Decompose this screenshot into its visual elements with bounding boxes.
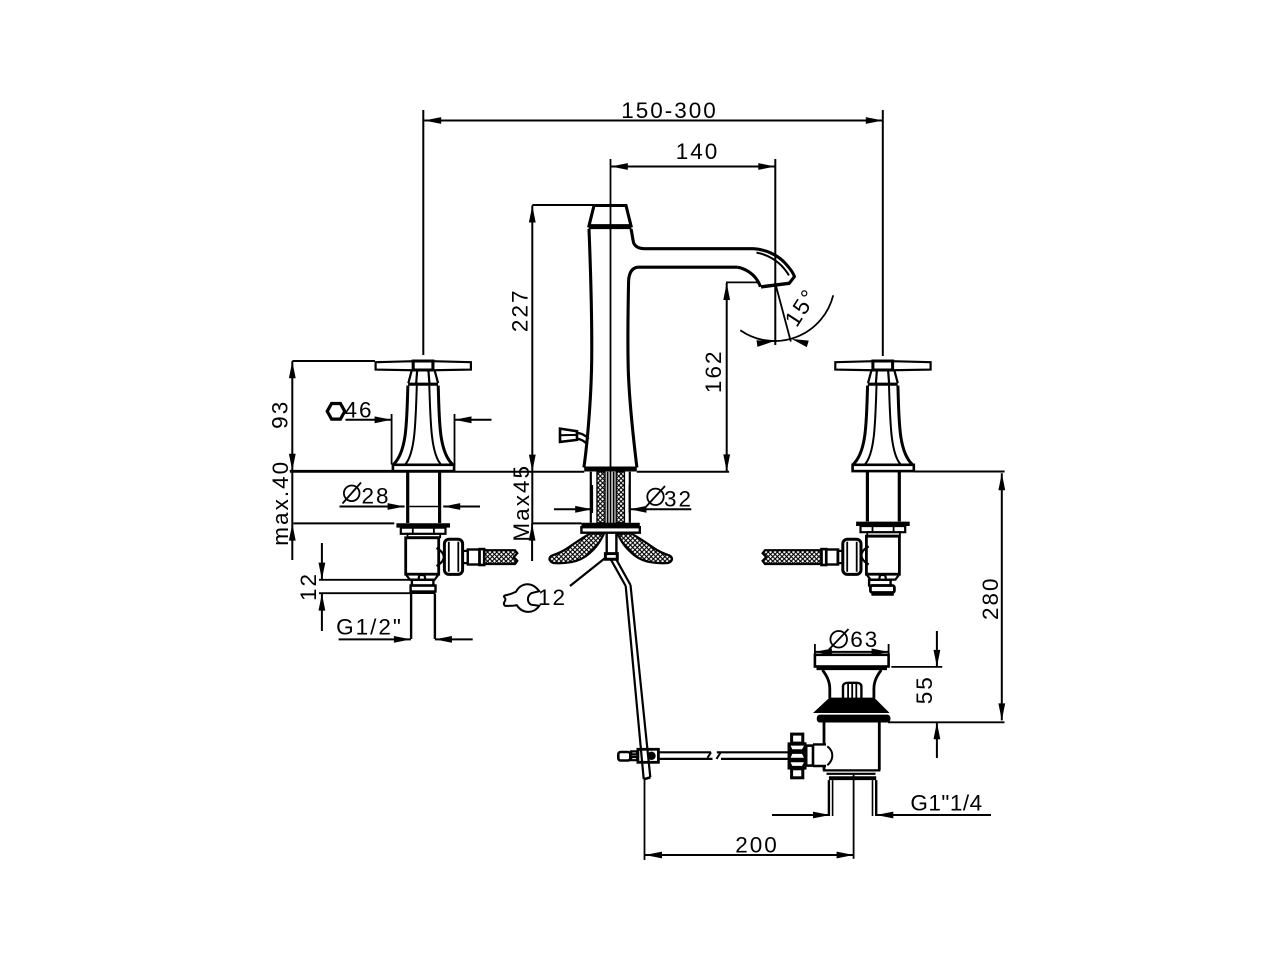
dim o32 line [554, 508, 691, 510]
deck top line left [290, 471, 584, 473]
spout outer curve and beak [754, 249, 795, 284]
left handle neck tube walls [408, 471, 440, 523]
dim 227 top reference [532, 204, 593, 206]
spout arm bottom left curve into body [629, 267, 638, 280]
left handle hex nut facet lines [449, 542, 459, 572]
dim 280 line [1001, 473, 1003, 720]
dim 140 right extension [774, 159, 776, 345]
pull rod knob [560, 429, 577, 442]
left handle hub neck bottom line [408, 383, 438, 386]
wrench symbol [504, 584, 539, 612]
svg-text:280: 280 [978, 576, 1003, 620]
drain cap bottom thick line [817, 666, 888, 670]
drain tailpipe walls [829, 780, 876, 816]
right handle cross bar left arm [835, 361, 872, 370]
stud cap [605, 554, 617, 560]
left handle tail ring bottom thick [411, 591, 436, 594]
right handle hose ferrule [822, 549, 827, 565]
drain body port arc [827, 746, 832, 765]
lever rod shaft right piece [717, 752, 789, 759]
right handle tail ring bottom thick [871, 592, 893, 595]
drain centerline / 200 right extension [853, 774, 855, 859]
left mounting wing (hatched) [549, 533, 603, 563]
dim 12 references [319, 580, 411, 593]
dim 200 line [645, 854, 854, 856]
deck bottom line left handle [293, 522, 394, 524]
dim G1/2 line [339, 638, 473, 640]
15 degree slant line [776, 286, 791, 342]
lever clamp screw [647, 752, 655, 760]
right handle trumpet body [853, 386, 912, 465]
right handle hub neck [868, 370, 898, 383]
svg-text:G1"1/4: G1"1/4 [910, 791, 982, 816]
svg-text:63: 63 [850, 627, 879, 652]
right handle valve port arc [861, 546, 868, 564]
dim 150-300 line [424, 120, 883, 122]
diameter symbol o28 [343, 483, 362, 504]
faucet centerline / 140 left extension [610, 159, 612, 523]
pull rod diagonal upper [611, 559, 631, 586]
drain port stub lines [813, 744, 826, 766]
left handle tail ring upper [412, 580, 434, 586]
faucet body left side [584, 229, 592, 468]
svg-text:Max45: Max45 [509, 464, 534, 542]
dim 46 arrows [375, 416, 392, 423]
deck top line at right handle / 280 top ref [914, 471, 1005, 473]
hex symbol for 46 [327, 404, 345, 420]
stud below flange [607, 533, 617, 554]
pull rod inside shank [608, 472, 614, 523]
svg-text:93: 93 [267, 400, 292, 429]
svg-text:28: 28 [361, 483, 390, 508]
mounting flange body [581, 527, 639, 533]
dim 46 line [346, 419, 492, 421]
right handle flange ring notches [873, 526, 894, 531]
drain tailpipe top thick band [829, 776, 876, 780]
svg-text:140: 140 [676, 139, 720, 164]
right handle tail ring upper [869, 580, 891, 586]
left handle hose tube [468, 550, 480, 565]
Max45 lower reference [532, 522, 581, 524]
right handle braided hose (hatched) [763, 550, 822, 564]
faucet base thick line [584, 467, 637, 472]
drain castellated nut bottom collar [792, 769, 803, 778]
drain castellated nut top collar [792, 734, 803, 743]
dim o63 extension lines [815, 644, 889, 657]
drain castellated nut slots [791, 746, 804, 766]
dim o28 line [340, 506, 481, 508]
svg-text:32: 32 [664, 487, 693, 512]
dim 12 line left [321, 543, 323, 631]
svg-text:12: 12 [296, 572, 321, 601]
svg-text:G1/2": G1/2" [336, 614, 403, 639]
right handle hub neck bottom line [868, 383, 898, 386]
right handle tail ring lower [870, 586, 894, 593]
spout lower lip inner curve [751, 274, 759, 285]
dim 46 extension lines [392, 414, 455, 465]
dim o28 crossing neck [410, 506, 439, 508]
mounting flange top thick band [581, 523, 639, 528]
dim o32 arrows [575, 506, 592, 513]
lever rod coupling knobs [631, 751, 637, 760]
dim G1/2 arrows [394, 636, 411, 643]
svg-text:12: 12 [538, 585, 567, 610]
right handle valve body [866, 536, 899, 574]
left handle flange thick band [396, 523, 450, 527]
wrench 12 leader line [570, 559, 605, 587]
threaded shank outer walls [591, 472, 630, 523]
drain seal ring (black) [818, 715, 890, 721]
diameter symbol o63 [829, 629, 849, 650]
left handle flare base plate [393, 465, 454, 471]
dim 140 line [611, 166, 776, 168]
left handle valve body [406, 538, 439, 574]
left handle hub neck [408, 370, 438, 383]
dim 140 arrows [611, 163, 628, 170]
left handle tail ring lower [411, 586, 436, 592]
drain top cap [815, 655, 889, 667]
dim 93 bottom reference [290, 470, 392, 472]
spout arm bottom edge [638, 266, 738, 269]
left handle flange ring [401, 528, 446, 534]
right handle valve bottom taper [866, 574, 899, 579]
dim 93 arrows [289, 361, 296, 378]
lever rod shaft left piece [658, 752, 712, 759]
left handle hex nut [444, 539, 462, 574]
dim 162 top reference [726, 281, 760, 283]
dim G1"1/4 line [772, 814, 991, 816]
left handle hose ferrule [480, 549, 485, 565]
diameter symbol o32 [646, 486, 665, 507]
left handle trumpet facet lines [405, 386, 441, 465]
horizontal lever rod left tip [618, 752, 630, 761]
pull rod bottom cap [644, 777, 651, 779]
Max45 bottom arrow [529, 524, 536, 541]
svg-text:150-300: 150-300 [621, 98, 718, 123]
stud cap slot [609, 555, 615, 557]
drain neck concave sides [823, 670, 882, 698]
spout beak inner curve [757, 253, 789, 276]
lever rod break symbol [708, 752, 721, 759]
dim G1"1/4 arrows [813, 812, 830, 819]
left handle flange lower ring [408, 534, 441, 537]
right handle trumpet facet lines [865, 386, 901, 465]
dim 227 / Max45 line [531, 206, 533, 562]
right handle neck tube walls [867, 471, 899, 521]
right handle hub cap [873, 361, 893, 370]
right handle hex nut [843, 539, 861, 574]
dim 55/280 bottom reference [888, 721, 1004, 723]
dim 162 arrows [723, 283, 730, 300]
right handle flare base plate [853, 465, 914, 471]
pull rod knob stem [577, 433, 589, 444]
dim 150-300 extension lines [423, 110, 883, 356]
pull rod knob middle line [560, 434, 577, 436]
svg-text:200: 200 [735, 833, 779, 858]
max.40 bottom arrow [289, 524, 296, 541]
dim 55 top reference [891, 666, 942, 668]
faucet cap bottom thick line [589, 226, 632, 230]
svg-text:55: 55 [912, 675, 937, 704]
right handle flange lower ring [867, 532, 900, 535]
left handle tailpipe [411, 594, 435, 639]
dim o28 arrows [388, 503, 405, 510]
right handle flange thick band [856, 522, 910, 526]
left handle cross bar left arm [376, 361, 413, 370]
pull rod diagonal long [626, 585, 651, 779]
right handle flange ring [861, 526, 906, 532]
drain lift knob ribs [848, 683, 856, 698]
dim 55 line [936, 631, 938, 758]
drain body bottom line [823, 770, 880, 773]
lever clamp block [638, 749, 659, 762]
dim 280 arrows [998, 473, 1005, 490]
left handle braided hose (hatched) [484, 550, 517, 564]
faucet top cap [589, 206, 631, 226]
left handle flange ring notches [413, 528, 434, 533]
right handle hose tube [826, 550, 838, 565]
svg-text:max.40: max.40 [268, 460, 293, 546]
left handle cross bar right arm [433, 361, 471, 370]
drain body [824, 722, 879, 770]
right mounting wing (hatched) [618, 533, 672, 563]
dim 200 left extension [644, 778, 646, 861]
spout lower lip curve [737, 267, 760, 287]
arrowheads [289, 117, 1005, 858]
right handle hose collar [838, 551, 843, 563]
left handle trumpet body [394, 386, 453, 465]
dim o63 arrows [815, 649, 832, 656]
right handle hex nut facet lines [847, 542, 857, 572]
dim o32 extension lines [592, 485, 629, 513]
right handle cross bar right arm [893, 361, 931, 370]
svg-text:227: 227 [508, 289, 533, 333]
threaded shank hatched bands [597, 472, 605, 523]
drain tailpipe inner lines [833, 780, 873, 816]
dim 12 arrows [319, 563, 326, 580]
spout mouth bottom line [761, 283, 790, 287]
left handle valve bottom taper [406, 574, 439, 579]
dim o63 line [815, 651, 889, 653]
drain castellated nut body [788, 743, 806, 769]
dim 93 top reference [292, 360, 375, 362]
dim 200 arrows [645, 852, 662, 859]
svg-text:46: 46 [344, 398, 373, 423]
drain rod washer [806, 746, 813, 766]
dim 227 arrows [529, 206, 536, 223]
drain seal trapezoid (black) [815, 698, 888, 712]
dim 93 line [291, 361, 293, 560]
left handle hose collar [463, 551, 468, 563]
dim 162 line [726, 283, 728, 472]
left handle hub cap [413, 361, 433, 370]
left handle valve port arc [437, 548, 444, 566]
15 degree arc arrows [756, 338, 774, 347]
dim 150-300 arrows [424, 117, 441, 124]
drain lift knob [843, 683, 861, 698]
15 degree arc [740, 295, 833, 341]
dim 55 arrows [934, 650, 941, 667]
spout arm top edge [644, 247, 754, 250]
faucet body right lower side [628, 281, 637, 468]
svg-text:162: 162 [701, 350, 726, 394]
faucet right shoulder into spout arm [631, 229, 644, 249]
deck top line right of faucet [637, 471, 729, 473]
